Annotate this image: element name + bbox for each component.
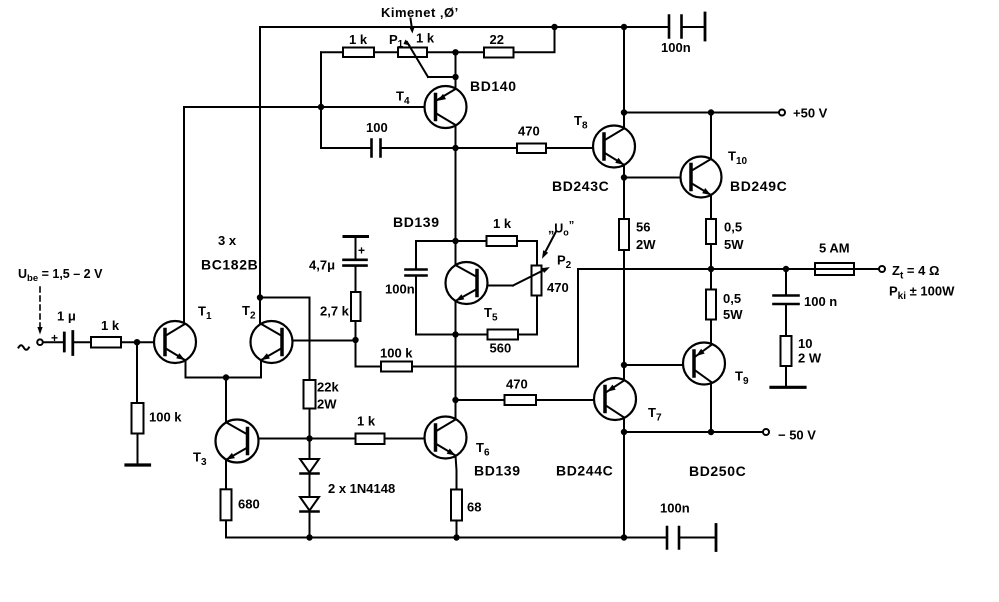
wire -50V to bottom rail [623,432,625,538]
wire Zobel branch [785,269,787,386]
svg-text:0,5: 0,5 [724,220,742,235]
resistor 1k (T6 base) [310,434,436,445]
node output 0,5 [708,266,714,272]
transistor T7 BD244C [594,378,636,420]
transistor T2 [251,321,293,363]
terminal output Zt [879,266,885,272]
svg-text:T10: T10 [728,149,748,168]
transistor T6 BD139 [425,417,467,459]
wire bottom rail -50V [226,537,715,539]
svg-text:470: 470 [547,280,569,295]
potentiometer P1 wiper [407,42,456,77]
wire T4 base row [184,106,436,108]
wire T5 base [477,285,513,287]
node base row x321 [318,104,324,110]
wire T3 emitter to 680 [225,460,227,490]
svg-text:680: 680 [238,497,260,512]
wire input row [43,341,166,343]
node rail diodes [306,534,312,540]
resistor 1k input [91,337,121,348]
wire +50V row [624,112,779,114]
svg-text:Ube = 1,5 – 2 V: Ube = 1,5 – 2 V [18,267,103,284]
wire feedback row to output [412,269,578,367]
transistor T3 [216,420,259,463]
wire 0,5 lower to T9 emitter [710,320,712,346]
node rail -50V [621,534,627,540]
resistor 680 [221,489,232,520]
node +50V T8 [621,109,627,115]
svg-text:BD244C: BD244C [556,463,613,479]
svg-text:P2: P2 [557,253,572,272]
resistor 100k (feedback) [381,362,412,372]
wire output to 0,5 lower [710,269,712,290]
wire T10 base row [624,177,691,179]
svg-text:100n: 100n [661,40,691,55]
svg-text:+50 V: +50 V [793,106,828,121]
wire x321 vertical (bias to 100p row) [320,52,322,148]
capacitor C 100n (T5) [406,270,427,276]
svg-text:100 n: 100 n [804,294,837,309]
wire 2,7k to T2 base node [355,321,357,340]
svg-text:3 x: 3 x [218,233,237,248]
potentiometer P1 1k body [398,48,427,58]
arrow Uo pointer [544,232,556,255]
node output Zobel [783,266,789,272]
ground input [126,463,150,466]
svg-text:470: 470 [518,124,540,139]
node diode-1k [306,435,312,441]
node T2 base [352,337,358,343]
node input base [134,339,140,345]
svg-text:5W: 5W [723,307,743,322]
potentiometer P1 wiper arrowhead [404,40,411,46]
svg-text:T3: T3 [193,450,207,469]
resistor 1k (bias row left) [343,48,374,58]
resistor 470 (T8 base) [456,144,605,154]
wire -50V row [624,431,763,433]
resistor 2,7k [351,292,361,321]
transistor T1 [154,321,196,363]
svg-text:10: 10 [798,336,812,351]
resistor 0,5 5W (lower) [706,290,716,320]
svg-text:1 μ: 1 μ [57,309,76,324]
wire T2 base row [282,340,356,342]
wire T2 collector feed (left vertical) [259,27,261,324]
capacitor C 100n (top decoupling) [669,13,705,40]
resistor 10 2W [781,336,792,366]
svg-text:BC182B: BC182B [201,257,258,273]
svg-text:100n: 100n [385,282,415,297]
diode D2 1N4148 [300,474,319,538]
svg-text:560: 560 [490,341,512,356]
svg-text:1 k: 1 k [416,31,435,46]
node T5 top [452,238,458,244]
transistor T4 BD140 [425,86,467,128]
svg-text:BD139: BD139 [474,463,521,479]
resistor 470 (T7 base) [456,395,606,405]
resistor 100k input [132,342,144,463]
svg-text:100: 100 [366,120,388,135]
wire T5 loop top arm [416,241,537,266]
wire output rail [578,268,879,270]
wire T1 T2 emitter row [186,360,262,378]
svg-text:2W: 2W [636,237,656,252]
svg-text:BD139: BD139 [393,214,440,230]
resistor 1k (T5 loop) [487,236,518,246]
node rail-22 [551,24,557,30]
wire 680 to bottom rail [225,521,227,538]
transistor T10 BD249C [681,157,722,198]
wire T7 top/bottom [623,365,625,432]
wire T3 collector [225,378,227,423]
wire 68 to bottom rail [456,521,458,538]
capacitor C 100n (Zobel) [774,296,799,305]
svg-text:T6: T6 [476,440,490,459]
node P1 wiper-T4 [452,74,458,80]
svg-text:470: 470 [506,377,528,392]
wire T5 loop bottom arm [416,296,537,335]
diode D1 1N4148 [300,439,319,474]
svg-text:− 50 V: − 50 V [778,428,816,443]
resistor 560 [488,330,519,340]
ground (Zobel) [771,386,805,389]
svg-text:T9: T9 [735,369,749,388]
wire T10 collector [710,113,712,160]
node T9 base [621,362,627,368]
svg-text:BD249C: BD249C [730,178,787,194]
arrow Ube dashed pointer [37,287,42,335]
resistor 0,5 5W (upper) [706,219,716,244]
node T4 emitter [452,145,458,151]
resistor 22 [484,48,514,58]
svg-text:„Uo”: „Uo” [548,220,574,238]
terminal +50V [779,110,785,116]
transistor T5 BD139 [446,262,488,304]
svg-text:T7: T7 [648,405,662,424]
transistor T9 BD250C [683,343,725,385]
resistor 56 2W [619,219,629,250]
svg-text:2 W: 2 W [798,351,822,366]
wire 0,5 to output rail [710,244,712,269]
wire T10 emitter [710,195,712,219]
svg-text:56: 56 [636,220,650,235]
svg-text:Kimenet ‚Ø’: Kimenet ‚Ø’ [381,5,459,20]
svg-text:T5: T5 [484,305,498,324]
capacitor C 4,7u electrolytic [344,237,368,293]
capacitor C 1u input [64,332,73,355]
svg-text:+: + [358,244,365,258]
potentiometer P2 470 body [532,266,542,296]
node emitters T1T2 [223,374,229,380]
node -50V T9 [708,429,714,435]
svg-text:Zt = 4 Ω: Zt = 4 Ω [892,263,939,282]
svg-text:2,7 k: 2,7 k [320,304,350,319]
node +50V T10 [708,109,714,115]
wire bias row P1 [321,27,555,52]
svg-text:5W: 5W [724,237,744,252]
node T6 collector [452,397,458,403]
svg-text:4,7μ: 4,7μ [309,258,335,273]
potentiometer P2 wiper [513,269,547,286]
resistor 22k 2W [304,380,316,409]
svg-text:P1: P1 [389,32,404,50]
wire T5 loop left arm [415,241,417,335]
svg-text:1 k: 1 k [493,216,512,231]
terminal input [37,339,43,345]
wire 100p cap row [321,147,456,149]
svg-text:T2: T2 [242,303,256,322]
svg-text:BD243C: BD243C [552,178,609,194]
node -50V T7 [621,429,627,435]
wire T8 emitter to 56 [623,165,625,219]
wire +50V top rail [260,26,704,28]
svg-text:100 k: 100 k [149,410,182,425]
svg-text:22: 22 [490,32,504,47]
wire 56 to T7 chain vertical [623,250,625,380]
capacitor C 100 (T4 feedback) [372,140,381,157]
node T2 collector-22k [257,294,263,300]
node P1-22 [452,49,458,55]
wire T5 bias chain vertical [455,148,457,420]
svg-text:Pki ± 100W: Pki ± 100W [889,284,955,303]
wire T9 base row [624,364,694,366]
wire T1 collector vertical [183,107,185,324]
svg-text:2W: 2W [317,397,337,412]
svg-text:100 k: 100 k [380,346,413,361]
svg-text:100n: 100n [660,501,690,516]
node T8e-T10b [621,174,627,180]
fuse 5AM [815,263,854,275]
svg-text:T1: T1 [198,304,212,323]
wire T3 base row [248,438,310,440]
svg-text:1 k: 1 k [357,414,376,429]
svg-text:68: 68 [467,500,481,515]
wire feedback node down [356,340,382,367]
svg-text:1 k: 1 k [349,32,368,47]
transistor T8 BD243C [593,126,635,168]
node T5 bottom [452,331,458,337]
svg-text:22k: 22k [317,380,339,395]
wire 22k to diode node [309,409,311,439]
svg-text:T8: T8 [574,113,588,132]
capacitor C 100n (bottom decoupling) [667,525,716,551]
source symbol sine [19,345,29,350]
svg-text:0,5: 0,5 [723,291,741,306]
wire T8 collector vertical [623,27,625,128]
svg-text:5 AM: 5 AM [819,241,850,256]
svg-text:BD140: BD140 [470,78,517,94]
wire 22k feed branch [260,298,310,381]
svg-text:BD250C: BD250C [689,463,746,479]
wire T6 emitter to 68 [456,456,457,490]
svg-text:T4: T4 [396,89,410,108]
terminal -50V [763,429,769,435]
resistor 68 [451,490,462,521]
svg-text:1 k: 1 k [101,318,120,333]
node rail-T8 [621,24,627,30]
node rail 68 [453,534,459,540]
svg-text:2 x 1N4148: 2 x 1N4148 [328,481,395,496]
wire T9 collector [710,382,712,432]
svg-text:+: + [51,331,58,345]
node dots [134,24,789,541]
wire T4 collector/emitter vertical [455,52,457,148]
arrow Kimenet 0 pointer [411,19,413,30]
